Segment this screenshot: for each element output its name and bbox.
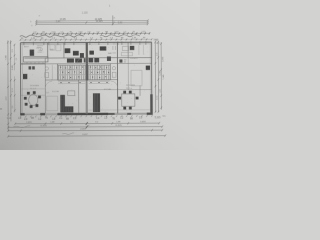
ticks left line2: [10, 41, 12, 115]
dimension line top overall 1: [36, 20, 147, 22]
svg-text:2,385: 2,385: [163, 56, 165, 62]
ticks left line1: [7, 41, 9, 125]
dimension line left 3b: [14, 76, 16, 112]
counter dark left B: [75, 58, 82, 62]
svg-text:ZIMMER: ZIMMER: [130, 58, 138, 60]
svg-text:WOHNEN: WOHNEN: [30, 85, 40, 87]
stair treads left flight 1: [59, 65, 85, 69]
stair top edge left: [58, 64, 86, 66]
bath fixtures left room: [37, 46, 43, 52]
counter dark right B: [94, 58, 99, 62]
corridor line h3: [45, 79, 117, 81]
fixture square b: [32, 66, 35, 69]
svg-text:23,85: 23,85: [80, 129, 86, 131]
wall right bottom thick pier: [150, 94, 152, 115]
svg-text:KUCHE: KUCHE: [52, 91, 60, 93]
closet outlines left upper: [50, 45, 55, 51]
sideboard box left: [24, 57, 48, 62]
wall left inner face: [21, 44, 23, 113]
cabinet outline left: [68, 91, 75, 96]
party wall center lower: [86, 80, 87, 114]
sideboard legs: [27, 62, 43, 64]
wall interior v2 right unit: [127, 42, 129, 57]
chairs left dining: [27, 92, 30, 95]
ticks right line1: [154, 41, 156, 113]
stair treads right flight 3: [89, 75, 108, 79]
door bottom right unit: [115, 113, 128, 115]
dimension line left 2: [10, 40, 12, 121]
svg-text:KUCHE: KUCHE: [104, 89, 112, 91]
dimension line right 3: [160, 42, 162, 109]
door arcs: [45, 81, 52, 88]
fixture square a: [29, 66, 32, 69]
stair treads right flight 2: [89, 70, 108, 74]
wall interior v1 left unit: [47, 43, 49, 59]
chairs right dining: [123, 91, 126, 94]
wall line h4 right unit: [88, 89, 151, 91]
svg-text:2,3: 2,3: [16, 58, 18, 61]
door frame nub left of party wall: [84, 58, 86, 62]
counter dark right C: [107, 56, 111, 61]
tick vertical x113: [112, 15, 114, 24]
ticks bottom line4: [7, 134, 166, 137]
ticks below wall: [20, 115, 153, 117]
stair top edge right: [88, 64, 110, 66]
svg-text:3,635: 3,635: [140, 121, 146, 123]
black block corridor left: [23, 74, 27, 79]
wall interior v4 left unit: [78, 80, 80, 113]
dark fixture right corridor: [119, 59, 122, 62]
kitchen block right solid: [93, 93, 100, 112]
svg-text:DIELE: DIELE: [97, 69, 103, 71]
tick bottom line2 center bold: [86, 125, 88, 128]
svg-text:5,115: 5,115: [155, 116, 161, 119]
paper background: [0, 0, 200, 150]
kitchen block left B: [73, 51, 79, 56]
ticks top line3: [35, 23, 148, 26]
window glass line bl: [25, 113, 40, 115]
svg-text:5,96: 5,96: [56, 21, 61, 23]
window bottom right unit: [131, 113, 147, 115]
svg-text:11,925: 11,925: [40, 125, 47, 127]
scan speckle noise: [22, 46, 148, 112]
wall bottom dark segment left corner: [20, 113, 25, 115]
dimension line bottom 3: [8, 129, 162, 132]
dimension line left 3a: [13, 44, 15, 70]
svg-text:11,925: 11,925: [96, 21, 104, 23]
tick bottom line1 center bold: [86, 122, 88, 125]
faint squiggle bottom left: [13, 126, 30, 128]
corridor line h2 bold left: [21, 63, 45, 65]
ticks right line3: [160, 43, 162, 109]
svg-text:7,485: 7,485: [163, 74, 165, 80]
svg-text:1,0: 1,0: [46, 92, 49, 94]
party wall center upper: [86, 42, 88, 80]
party wall lower face line: [84, 80, 86, 113]
svg-text:3,635: 3,635: [26, 122, 32, 124]
fixtures column right bath: [112, 44, 116, 53]
svg-text:BAD: BAD: [108, 52, 113, 55]
wc fixtures left: [45, 67, 48, 70]
svg-text:WOHNEN: WOHNEN: [126, 85, 136, 87]
room line left: [21, 94, 45, 96]
stair right wall: [109, 64, 111, 80]
dining table left unit: [29, 94, 38, 105]
svg-text:11,925: 11,925: [115, 125, 122, 127]
dimension line left 1: [7, 40, 9, 130]
ticks right line2: [157, 41, 159, 113]
counter dark right A: [89, 58, 94, 62]
wall bottom dark segment center: [58, 113, 109, 116]
svg-text:1,485: 1,485: [159, 70, 161, 76]
svg-text:5,96: 5,96: [118, 23, 123, 25]
kitchen block left A: [65, 48, 71, 53]
dimension line bottom 4: [8, 135, 165, 138]
svg-text:BAD: BAD: [50, 48, 55, 51]
window jambs top wall: [24, 41, 146, 45]
wall bottom dark segment right corner: [147, 113, 153, 115]
dimension line right 2: [157, 41, 159, 112]
stair rail right a: [88, 69, 110, 71]
svg-text:24,3 m: 24,3 m: [126, 88, 132, 90]
room line right low: [88, 109, 150, 111]
kitchen L-block left unit: [60, 95, 73, 112]
svg-text:7485: 7485: [153, 40, 159, 42]
ticks bottom line2: [7, 125, 163, 128]
svg-text:7,485: 7,485: [5, 54, 7, 60]
svg-text:1:100: 1:100: [82, 12, 89, 15]
ticks chain dense: [32, 32, 150, 35]
wall interior v2 right unit lower: [127, 58, 129, 90]
wall interior v2 left unit: [63, 43, 65, 58]
corridor line h2: [21, 62, 152, 65]
stair rail left a: [58, 69, 86, 71]
ticks left line3: [14, 44, 16, 112]
wall interior v3 left unit: [44, 58, 46, 113]
dimension line right 1: [154, 41, 156, 112]
dimension line top overall 3: [36, 23, 147, 25]
wall top inner face: [21, 43, 152, 46]
kitchen block right B: [89, 51, 94, 55]
dimension line top overall 2: [36, 21, 147, 23]
wc fixtures right: [112, 67, 115, 70]
faint handwriting under line3: [62, 133, 74, 135]
dimension line bottom 1: [15, 122, 159, 125]
furniture outlines right upper room: [122, 46, 129, 50]
stair rail right b: [88, 74, 110, 76]
black block right corridor: [146, 66, 150, 70]
wc room outline left unit: [47, 96, 58, 111]
svg-text:15: 15: [113, 22, 115, 24]
wall bottom dark nub: [40, 113, 45, 115]
landing marks: [58, 81, 110, 83]
staircase right unit: [88, 65, 110, 80]
wall outer bottom thick: [20, 113, 152, 116]
kitchen block right A: [100, 46, 107, 50]
stair treads right flight 1: [89, 65, 108, 69]
handwriting squiggle: [20, 35, 84, 37]
staircase left unit: [58, 65, 86, 80]
window bottom left unit: [25, 113, 41, 115]
stair rail left b: [58, 74, 86, 76]
door bottom left unit: [45, 113, 57, 115]
wall outer right: [151, 42, 153, 114]
dimension line bottom 2: [8, 126, 162, 129]
svg-text:24,97: 24,97: [82, 134, 88, 136]
paper edge faint mark left: [0, 108, 2, 110]
room line left b: [21, 88, 45, 90]
wall outer left: [19, 43, 21, 115]
ticks bottom line3: [7, 129, 163, 132]
wall right inner face: [149, 44, 151, 112]
svg-text:23,85: 23,85: [60, 18, 67, 21]
shower enclosure right unit: [131, 70, 142, 86]
stair bottom edge bold: [58, 79, 111, 81]
window glass line br: [131, 113, 146, 115]
stair number dots: [60, 67, 109, 78]
stair treads left flight 2: [59, 70, 85, 74]
wall stub right unit: [139, 85, 141, 95]
stair left wall: [57, 64, 59, 80]
svg-text:24,3 m: 24,3 m: [30, 88, 36, 90]
svg-text:ABST: ABST: [24, 45, 30, 48]
ticks above wall: [20, 38, 153, 40]
dimension chain line above wall: [20, 38, 151, 41]
wall interior v1 right unit: [116, 42, 118, 113]
wall outer top: [20, 41, 151, 44]
sideboard dark strip: [24, 57, 47, 58]
ticks top line1 ends: [35, 19, 148, 22]
counter dark left A: [67, 59, 74, 63]
svg-text:1,485: 1,485: [12, 64, 14, 70]
dimension chain line dense: [33, 32, 150, 35]
ticks bottom line1: [14, 122, 160, 125]
furniture black left room: [30, 50, 34, 56]
wall interior h1: [45, 57, 151, 59]
kitchen block left C: [80, 53, 84, 58]
stair treads left flight 3: [59, 75, 85, 79]
svg-text:DIELE: DIELE: [68, 69, 74, 71]
ticks top line2: [35, 21, 148, 24]
dining table right unit: [122, 94, 135, 106]
